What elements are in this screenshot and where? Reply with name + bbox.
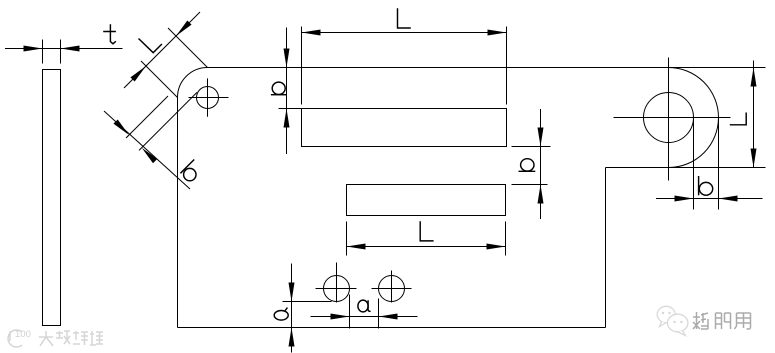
dimension a bottom-left dimension line: [291, 264, 293, 353]
dimension b middle label: [519, 159, 536, 172]
dimension b middle dimension line: [540, 109, 542, 219]
side view plate (thickness view): [43, 70, 61, 326]
dimension L right arrow top: [751, 68, 757, 87]
bottom hole 1: [324, 276, 350, 302]
corner dimension L extension line lower: [141, 61, 178, 98]
bottom hole 1 horizontal centerline: [316, 288, 357, 290]
dimension a bottom-left label: [274, 308, 288, 321]
dimension b bottom-right dimension line: [656, 198, 763, 200]
corner dimension b label: [180, 160, 196, 181]
right hole vertical centerline: [668, 58, 670, 181]
dimension a bottom-middle dimension line: [311, 316, 418, 318]
dimension b middle extension line lower: [512, 184, 548, 186]
corner dimension L arrow upper: [174, 20, 192, 38]
dimension L slot1 extension line right: [506, 27, 508, 105]
dimension a bottom-left arrow top: [289, 283, 295, 302]
corner dimension b dimension line: [104, 111, 190, 189]
dimension b left label: [271, 82, 286, 95]
watermark bottom-right chat bubbles: [657, 306, 688, 335]
dimension a bottom-middle arrow left: [331, 314, 350, 320]
corner dimension L dimension line: [124, 12, 200, 88]
corner hole vertical centerline: [207, 78, 209, 116]
part step vertical edge: [605, 168, 607, 328]
watermark bottom-right characters: [693, 312, 751, 329]
dimension L slot2 label: [420, 221, 433, 241]
dimension L slot1 label: [398, 8, 411, 28]
watermark bottom-left logo: [8, 330, 22, 347]
corner fillet R30: [178, 68, 208, 98]
bottom hole 2: [379, 276, 405, 302]
corner hole horizontal centerline: [189, 97, 229, 99]
dimension b bottom-right arrow right: [719, 196, 738, 202]
dimension a bottom-left extension line: [283, 301, 332, 303]
bottom hole 2 vertical centerline: [391, 271, 393, 303]
dimension b middle extension line upper: [512, 146, 551, 148]
watermark bottom-left characters: [39, 331, 103, 346]
corner hole: [197, 87, 219, 109]
corner dimension L extension line upper: [168, 28, 208, 68]
corner dimension L label: [139, 39, 162, 53]
dimension L slot1 arrow left: [302, 30, 321, 36]
dimension L right label: [730, 113, 746, 125]
dimension b left dimension line: [286, 28, 288, 155]
dimension b middle arrow upper: [538, 128, 544, 147]
dimension b bottom-right extension line right: [718, 118, 720, 210]
dimension b middle arrow lower: [538, 185, 544, 204]
dimension a bottom-middle extension line right: [378, 299, 380, 329]
dimension a bottom-left arrow bottom: [289, 328, 295, 347]
slot 1: [302, 109, 507, 147]
svg-text:100: 100: [15, 329, 31, 340]
dimension t arrow left: [24, 46, 43, 52]
right end arc R50: [669, 68, 719, 168]
dimension a bottom-middle extension line left: [349, 295, 351, 329]
corner dimension b tangent extension line at hole: [139, 92, 197, 150]
dimension a bottom-middle label: [358, 300, 371, 312]
right arm bottom edge with extension: [606, 167, 766, 169]
dimension L slot2 extension line right: [505, 222, 507, 256]
part left edge: [177, 98, 179, 328]
dimension L right arrow bottom: [751, 149, 757, 168]
dimension t arrow right: [61, 46, 80, 52]
corner dimension b arrow upper: [113, 119, 131, 137]
dimension b left arrow top: [284, 49, 290, 68]
part bottom edge: [178, 327, 606, 329]
dimension b bottom-right arrow left: [675, 196, 694, 202]
dimension L slot1 dimension line: [302, 32, 507, 34]
slot 2: [347, 185, 506, 216]
dimension b bottom-right extension line left: [693, 118, 695, 210]
right hole horizontal centerline: [614, 117, 731, 119]
dimension L slot2 extension line left: [346, 222, 348, 256]
dimension L slot2 dimension line: [347, 246, 506, 248]
dimension t extension line right: [60, 40, 62, 64]
bottom hole 2 horizontal centerline: [372, 288, 412, 290]
dimension L slot1 extension line left: [301, 27, 303, 105]
dimension b left arrow bottom: [284, 109, 290, 128]
dimension L slot2 arrow right: [487, 244, 506, 250]
dimension L slot2 arrow left: [347, 244, 366, 250]
dimension t label: [103, 24, 116, 44]
dimension t extension line left: [42, 40, 44, 64]
dimension b bottom-right label: [699, 176, 713, 195]
dimension b left extension line: [279, 108, 302, 110]
corner dimension b arrow lower: [140, 146, 158, 164]
dimension t dimension line: [5, 48, 123, 50]
dimension a bottom-middle arrow right: [379, 314, 398, 320]
part top edge with right extension: [208, 67, 766, 69]
corner dimension b tangent extension line outer: [126, 96, 168, 138]
bottom hole 1 vertical centerline: [336, 263, 338, 303]
dimension L right dimension line: [753, 61, 755, 168]
dimension L slot1 arrow right: [488, 30, 507, 36]
right hole: [644, 93, 694, 143]
corner dimension L arrow lower: [130, 64, 148, 82]
